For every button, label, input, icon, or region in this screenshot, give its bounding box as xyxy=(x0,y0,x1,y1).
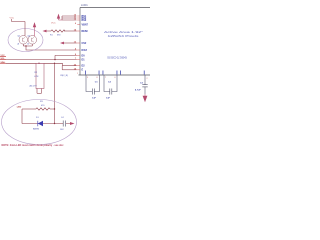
svg-text:BAT85: BAT85 xyxy=(33,127,40,130)
wire row y60 from connector xyxy=(6,59,77,61)
bottom wire y123.5 xyxy=(22,123,70,125)
svg-text:R2: R2 xyxy=(35,72,38,74)
svg-text:6: 6 xyxy=(75,23,77,25)
wire row y69 xyxy=(63,65,77,67)
vertical tie x62.5 xyxy=(61,63,63,70)
Q internals xyxy=(23,37,34,42)
svg-text:CS#: CS# xyxy=(82,42,87,45)
svg-text:4.7K: 4.7K xyxy=(34,76,39,78)
power arrow up at Q2 xyxy=(33,23,36,37)
svg-text:6: 6 xyxy=(115,77,116,79)
pullup resistor box R2 xyxy=(36,63,44,88)
svg-text:C2: C2 xyxy=(108,82,112,84)
photo sensor ellipse (top-left) xyxy=(8,29,43,52)
capacitor C1 loop xyxy=(86,75,100,92)
capacitor C3 (VCC to GND) xyxy=(144,75,146,94)
svg-text:1uF: 1uF xyxy=(92,98,97,100)
display module LCD1 outline xyxy=(79,8,151,76)
svg-text:C1: C1 xyxy=(95,82,99,84)
capacitor C4 plates xyxy=(63,121,65,127)
svg-text:#R(C_N): #R(C_N) xyxy=(60,75,68,77)
resistor R1 zigzag xyxy=(51,30,65,32)
svg-text:R3: R3 xyxy=(40,101,43,103)
wire from sensor to pin D/C xyxy=(26,46,77,50)
svg-text:8: 8 xyxy=(97,77,98,79)
long vertical net x54 xyxy=(54,63,56,123)
svg-text:B: B xyxy=(28,44,30,46)
diode D1 xyxy=(38,121,43,126)
net arrow (left) on R1 xyxy=(43,30,47,33)
svg-text:12: 12 xyxy=(74,19,77,21)
svg-text:470: 470 xyxy=(41,105,45,107)
svg-text:BS0: BS0 xyxy=(82,19,87,22)
svg-text:LED: LED xyxy=(17,106,22,108)
svg-text:VCC: VCC xyxy=(10,18,15,20)
svg-text:R1: R1 xyxy=(50,35,53,37)
svg-text:D0: D0 xyxy=(82,54,86,57)
svg-text:E: E xyxy=(82,69,84,72)
wire vertical x54 short xyxy=(54,55,56,59)
sensor bottoms join xyxy=(23,44,32,46)
left edge pin numbers (red, outside) xyxy=(74,15,77,71)
svg-text:1: 1 xyxy=(77,73,78,75)
wire row y64.5 from connector xyxy=(6,62,63,64)
net arrow right xyxy=(70,122,75,125)
resistor R1 row xyxy=(47,30,77,32)
svg-text:1uF: 1uF xyxy=(106,98,111,100)
svg-text:VCC: VCC xyxy=(1,55,6,57)
Q labels xyxy=(18,36,32,46)
wire into Q1 top xyxy=(12,19,26,36)
bottom edge pin names (blue, vertical marks) xyxy=(85,71,145,75)
svg-text:SSD1306: SSD1306 xyxy=(107,55,128,59)
svg-text:C4: C4 xyxy=(61,117,64,119)
svg-text:D/C#: D/C# xyxy=(82,49,88,52)
svg-text:C3: C3 xyxy=(140,83,144,85)
transistor Q1 circle xyxy=(19,36,28,45)
left vertical wire xyxy=(21,109,23,124)
left edge pin names (blue, inside) xyxy=(82,15,89,72)
net arrow (left) row y43 xyxy=(64,42,77,44)
ground arrow (down) xyxy=(143,94,147,102)
svg-text:13: 13 xyxy=(74,42,77,44)
svg-text:7: 7 xyxy=(105,77,106,79)
svg-text:D1: D1 xyxy=(82,58,86,61)
svg-text:A: A xyxy=(18,43,20,46)
svg-text:4.7uF: 4.7uF xyxy=(135,88,141,91)
svg-text:D1: D1 xyxy=(36,117,39,119)
left edge pin stubs (red) xyxy=(77,16,81,70)
svg-text:2: 2 xyxy=(147,78,148,80)
junction dots xyxy=(38,59,55,124)
svg-text:19: 19 xyxy=(74,68,77,70)
svg-text:390: 390 xyxy=(57,35,61,37)
svg-text:9: 9 xyxy=(87,77,88,79)
svg-text:VCC: VCC xyxy=(51,23,56,25)
transistor Q2 circle xyxy=(28,36,37,45)
svg-text:SDA: SDA xyxy=(1,61,6,64)
connector pin stubs left edge of sheet xyxy=(0,57,6,64)
svg-text:RES#: RES# xyxy=(82,30,89,33)
R2 bottom stubs xyxy=(37,89,42,94)
svg-text:VBAT: VBAT xyxy=(82,23,89,26)
connector labels (red) xyxy=(1,55,6,64)
capacitor C2 loop xyxy=(104,75,117,92)
power arrow VCC (up) at BS straps xyxy=(57,15,62,21)
svg-text:A2 4.7V: A2 4.7V xyxy=(30,85,38,88)
svg-text:20: 20 xyxy=(74,64,77,66)
wire row y72.5 xyxy=(62,69,76,71)
svg-text:NOTE: 2mA+LED must match diode: NOTE: 2mA+LED must match diode polarity … xyxy=(2,144,65,147)
svg-text:LCD1: LCD1 xyxy=(81,3,88,7)
svg-text:8: 8 xyxy=(75,54,77,56)
svg-text:D2: D2 xyxy=(82,65,86,68)
wire row y55.5 xyxy=(55,54,77,56)
bottom edge pin numbers (red) xyxy=(77,73,148,80)
svg-text:128x64 Pixels: 128x64 Pixels xyxy=(108,34,140,38)
resistor R3 row y109 xyxy=(22,108,55,110)
big ellipse (bottom-left block) xyxy=(2,100,77,145)
BS strap wires to pins xyxy=(62,16,77,20)
svg-text:16V: 16V xyxy=(60,129,64,131)
